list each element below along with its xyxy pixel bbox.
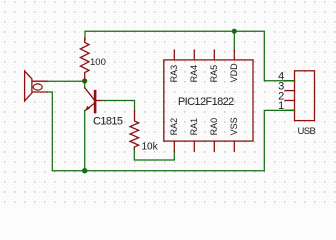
transistor Q1 emitter lead bbox=[86, 103, 95, 110]
pin VDD stub bbox=[233, 50, 235, 60]
speaker SP1 cone bbox=[25, 71, 32, 101]
speaker SP1 coil ellipse bbox=[33, 84, 42, 90]
wire speaker top pin to node A bbox=[47, 80, 85, 82]
wire Q1 base to R2 top bbox=[101, 101, 135, 112]
wire overlay on USB pin 1 bbox=[285, 109, 294, 111]
svg-text:RA4: RA4 bbox=[189, 65, 199, 83]
wire node A to Q1 collector bbox=[84, 81, 86, 88]
svg-text:C1815: C1815 bbox=[93, 115, 123, 127]
pin VSS stub bbox=[233, 141, 235, 151]
svg-text:RA3: RA3 bbox=[169, 65, 179, 83]
svg-text:VSS: VSS bbox=[229, 117, 239, 135]
connector J1 pin 4 stub bbox=[285, 80, 295, 82]
svg-text:USB: USB bbox=[298, 126, 316, 137]
svg-text:1: 1 bbox=[278, 100, 284, 112]
pin RA1 stub bbox=[193, 141, 195, 151]
node ground rail junction bbox=[82, 168, 87, 173]
svg-text:10k: 10k bbox=[142, 142, 159, 153]
connector J1 USB box bbox=[295, 71, 315, 121]
pin RA0 stub bbox=[213, 141, 215, 151]
speaker SP1 pin 2 stub bbox=[32, 91, 47, 93]
wire overlay on USB pin 4 bbox=[285, 80, 294, 82]
transistor Q1 emitter arrowhead bbox=[85, 106, 90, 111]
svg-text:RA5: RA5 bbox=[209, 65, 219, 83]
svg-text:VDD: VDD bbox=[229, 63, 239, 83]
transistor Q1 collector lead bbox=[85, 88, 95, 100]
svg-text:100: 100 bbox=[90, 57, 106, 68]
connector J1 pin 1 stub bbox=[285, 109, 295, 111]
svg-text:RA1: RA1 bbox=[189, 118, 199, 136]
pin RA4 stub bbox=[193, 50, 195, 60]
pin RA2 stub bbox=[173, 141, 175, 151]
wire R2 bottom to PIC RA2 bbox=[134, 149, 174, 160]
wire VDD branch to PIC VDD pin bbox=[233, 31, 235, 50]
resistor R1 100 bbox=[80, 38, 89, 81]
speaker SP1 pin 1 stub bbox=[32, 80, 47, 82]
op IC U1 PIC12F1822 box bbox=[164, 60, 253, 141]
svg-text:RA0: RA0 bbox=[209, 118, 219, 136]
connector J1 pin 2 stub bbox=[285, 100, 295, 102]
node junction VDD rail bbox=[232, 29, 237, 34]
svg-text:PIC12F1822: PIC12F1822 bbox=[178, 96, 234, 108]
wire ground net: USB pin1, bottom rail, speaker bottom pin bbox=[47, 92, 294, 171]
node A junction (R1 bottom / speaker / collector) bbox=[82, 78, 87, 83]
wire Q1 emitter to ground rail bbox=[84, 111, 86, 171]
transistor Q1 base pin stub bbox=[96, 100, 101, 102]
transistor Q1 C1815 base bar bbox=[94, 91, 97, 112]
svg-text:RA2: RA2 bbox=[169, 118, 179, 136]
connector J1 pin 3 stub bbox=[285, 90, 295, 92]
resistor R2 10k bbox=[130, 111, 139, 149]
pin RA5 stub bbox=[213, 50, 215, 60]
wire VDD net: top rail from R1 top to USB pin 4 bbox=[85, 31, 294, 80]
pin RA3 stub bbox=[173, 50, 175, 60]
